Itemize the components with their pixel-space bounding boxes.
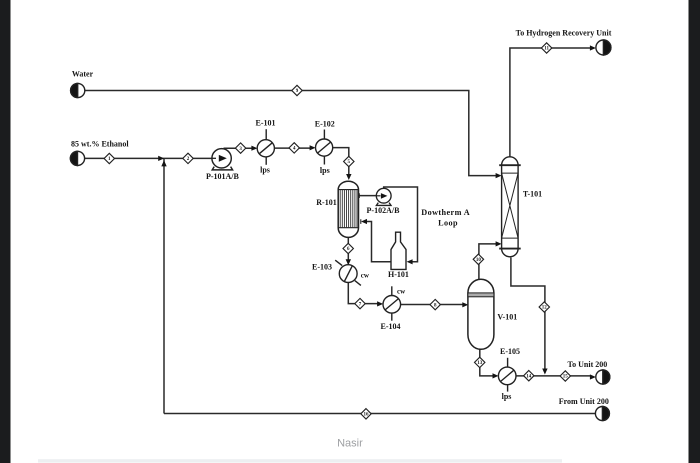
svg-text:Nasir: Nasir	[337, 437, 363, 449]
svg-text:16: 16	[364, 413, 370, 418]
svg-text:Loop: Loop	[438, 218, 458, 227]
svg-text:E-101: E-101	[256, 119, 276, 128]
svg-text:E-103: E-103	[312, 263, 332, 272]
svg-text:R-101: R-101	[316, 198, 336, 207]
svg-text:lps: lps	[260, 165, 270, 174]
svg-text:Dowtherm A: Dowtherm A	[421, 208, 470, 217]
svg-text:13: 13	[477, 361, 483, 366]
svg-text:cw: cw	[397, 288, 406, 296]
svg-text:V-101: V-101	[497, 312, 517, 321]
svg-text:E-105: E-105	[500, 347, 520, 356]
svg-text:To Unit 200: To Unit 200	[568, 360, 608, 369]
svg-text:Water: Water	[72, 70, 94, 79]
svg-text:cw: cw	[361, 271, 370, 279]
svg-text:10: 10	[476, 258, 482, 263]
svg-text:To Hydrogen Recovery Unit: To Hydrogen Recovery Unit	[516, 29, 612, 38]
svg-text:From Unit 200: From Unit 200	[559, 397, 609, 406]
svg-text:P-101A/B: P-101A/B	[206, 172, 240, 181]
svg-text:H-101: H-101	[388, 270, 409, 279]
svg-text:T-101: T-101	[523, 190, 542, 199]
svg-text:14: 14	[526, 374, 532, 379]
svg-text:lps: lps	[320, 166, 330, 175]
svg-text:P-102A/B: P-102A/B	[367, 206, 401, 215]
svg-text:E-102: E-102	[315, 119, 335, 128]
svg-text:15: 15	[563, 375, 569, 380]
svg-text:E-104: E-104	[381, 322, 401, 331]
svg-text:85 wt.% Ethanol: 85 wt.% Ethanol	[71, 139, 129, 148]
svg-text:11: 11	[544, 47, 549, 52]
svg-text:lps: lps	[502, 392, 512, 401]
svg-text:12: 12	[542, 306, 548, 311]
